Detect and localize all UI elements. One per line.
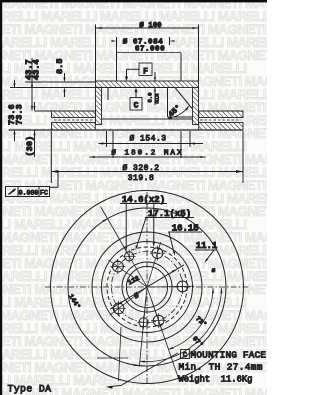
circle r79: [68, 208, 226, 366]
svg-text:(30): (30): [25, 136, 35, 157]
arc 144deg arrows on r79 circle: [134, 364, 139, 366]
dim 43.2 43.4: [31, 58, 33, 111]
datum F leader: [127, 68, 140, 70]
ext verticals misc: [112, 131, 114, 158]
dim 8.5: [64, 73, 66, 79]
svg-text:Ø 160: Ø 160: [139, 21, 162, 30]
leader 14.6 left: [125, 204, 127, 248]
hat wall left hatched: [96, 88, 102, 125]
ext line mounting face left: [10, 87, 102, 89]
svg-text:F: F: [143, 68, 148, 77]
horizontal centerline: [45, 286, 250, 288]
svg-text:MOUNTING FACE: MOUNTING FACE: [191, 350, 267, 361]
bore extension right: [180, 53, 182, 81]
svg-text:Min. TH 27.4mm: Min. TH 27.4mm: [179, 362, 263, 373]
datum box C note: [181, 350, 190, 359]
fcf runout symbol: [9, 189, 16, 195]
dim 73.6 73.3: [14, 80, 16, 87]
bolt hole 4: [113, 303, 124, 314]
bowl interior line: [102, 118, 192, 120]
svg-text:ø: ø: [212, 267, 216, 274]
dim 154.3 ext right: [189, 131, 191, 147]
pin hole 2: [139, 318, 148, 327]
svg-text:8.5: 8.5: [55, 59, 65, 74]
datum C box: [130, 98, 142, 111]
dim 67.084 arrows: [116, 37, 118, 45]
leader 14.6 right: [153, 204, 155, 244]
arc 72deg: [169, 288, 214, 349]
ext 320 left: [50, 131, 52, 183]
interior vertical small: [107, 88, 109, 101]
mounting face line: [102, 87, 175, 89]
chamfer ref vertical: [167, 88, 169, 118]
swept inner circle: [92, 232, 202, 342]
bore chamfer circle: [122, 262, 172, 312]
bolt circle dashdot: [112, 252, 183, 323]
bolt hole 3: [153, 315, 164, 326]
ring left vent dashes: [54, 119, 95, 121]
svg-text:C: C: [183, 352, 188, 360]
dim line 67: [117, 52, 182, 54]
dim line 180.2: [90, 156, 206, 158]
svg-text:FC: FC: [40, 189, 48, 196]
vertical centerline: [146, 192, 148, 384]
datum C leader: [135, 91, 137, 98]
chamfer ref horizontal: [168, 116, 193, 118]
chamfer diagonal 45: [175, 88, 192, 109]
radial ext pin A: [101, 207, 127, 252]
dim (30): [34, 102, 36, 110]
fcf frame: [6, 187, 50, 197]
svg-text:0.080: 0.080: [19, 189, 39, 196]
ext line hat top left: [25, 81, 96, 83]
ext 320 right: [242, 131, 244, 183]
extension line hat right: [198, 25, 200, 82]
svg-text:73.3: 73.3: [15, 104, 25, 125]
arc 97deg: [140, 288, 222, 361]
hat wall right hatched: [193, 88, 199, 125]
bore circle: [126, 266, 167, 307]
bolt hole 2: [177, 281, 188, 292]
section tick: [97, 357, 128, 359]
section viewing line: [119, 327, 122, 381]
spoke 161: [150, 297, 179, 382]
ring left hatched bottom plate: [52, 123, 96, 131]
mounting face leader curve: [121, 353, 178, 386]
svg-text:MIN: MIN: [154, 93, 161, 103]
ring left hatched top plate: [52, 111, 96, 118]
dim 154.3 ext left: [106, 131, 108, 147]
ring right vent dashes: [200, 119, 241, 121]
dim line 154.3: [99, 143, 204, 145]
dim line diameter 160: [96, 27, 199, 29]
leader 16.15: [169, 233, 174, 253]
svg-text:43.4: 43.4: [32, 59, 42, 80]
pin hole 1: [125, 252, 134, 261]
svg-text:319.8: 319.8: [128, 174, 155, 183]
bore extension left: [116, 45, 118, 81]
angle arc 45: [169, 107, 189, 119]
ring top edge right: [199, 110, 243, 112]
hat circle: [102, 242, 193, 333]
svg-text:Ø 180.2 MAX: Ø 180.2 MAX: [111, 149, 183, 158]
leader 11.1: [207, 250, 215, 260]
leader 17.1: [137, 218, 147, 248]
hole radials: [147, 242, 160, 286]
plate thickness dim: [154, 72, 156, 81]
spoke 186: [139, 297, 146, 367]
svg-text:Weight 11.6Kg: Weight 11.6Kg: [179, 375, 253, 385]
ring right hatched top plate: [199, 111, 243, 118]
bolt hole 5: [113, 261, 124, 272]
svg-text:5.0: 5.0: [147, 92, 154, 103]
bolt circle dia 112 line: [110, 265, 184, 309]
bolt hole 1: [152, 248, 163, 259]
extension line hat left: [95, 25, 97, 82]
datum F box: [139, 63, 152, 76]
svg-text:Ø 154.3: Ø 154.3: [129, 135, 166, 144]
fcf leader: [57, 172, 59, 188]
dim line 320.2: [51, 171, 243, 173]
svg-text:Type DA: Type DA: [8, 384, 52, 395]
ring right hatched bottom plate: [199, 123, 243, 131]
svg-text:Ø 320.2: Ø 320.2: [122, 164, 159, 173]
ring top edge left: [35, 110, 96, 112]
outer circle: [51, 191, 244, 384]
svg-text:C: C: [134, 102, 139, 111]
hidden circle dashed: [107, 247, 187, 327]
ring bottom edge: [9, 129, 244, 131]
hat top plate hatched: [96, 81, 199, 88]
